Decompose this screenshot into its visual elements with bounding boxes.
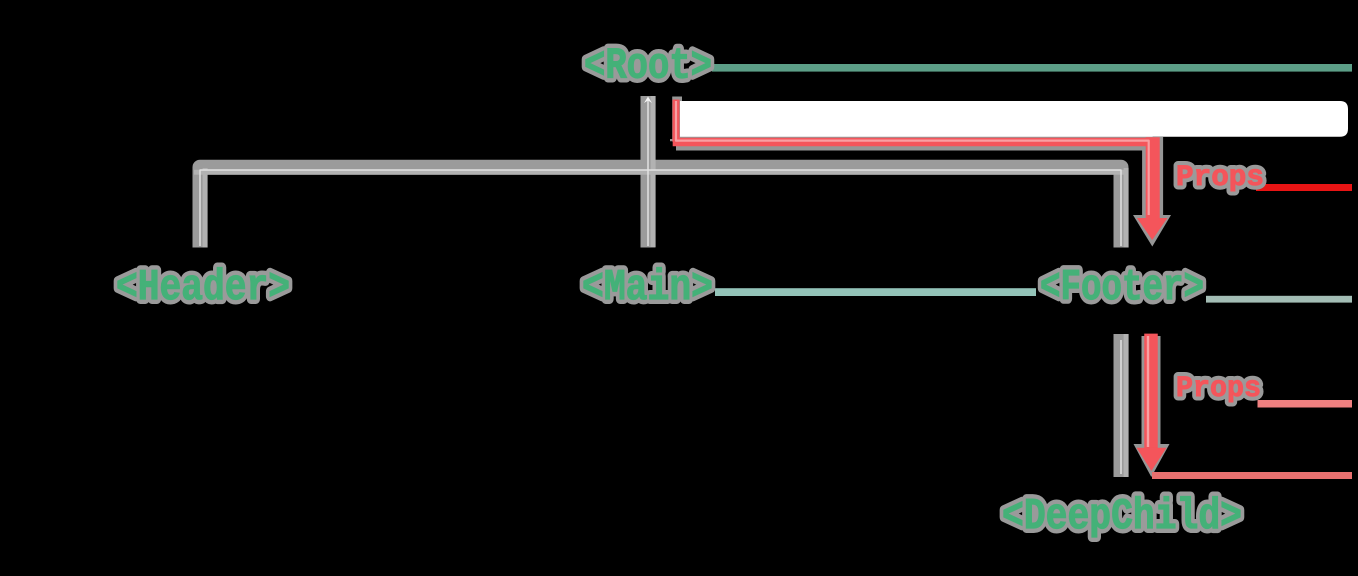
wire core: connector <box>200 170 1121 246</box>
red props path 2 <box>1144 334 1158 449</box>
rule F: salmon line at arrow 2 level <box>1152 472 1352 479</box>
arrow 1 gray halo <box>1133 215 1171 247</box>
arrowhead 1 <box>1137 218 1167 240</box>
svg-text:<DeepChild>: <DeepChild> <box>1002 492 1242 542</box>
wire: Root center vertical (gray band) <box>641 96 656 248</box>
arrowhead 2 <box>1137 448 1167 471</box>
red props path 1 <box>673 100 680 143</box>
green component labels <box>116 42 1242 543</box>
arrow 2 gray halo <box>1134 444 1170 477</box>
svg-text:<Main>: <Main> <box>582 263 713 313</box>
rule A: teal line right of Root <box>712 64 1352 72</box>
red props path 2: gray halo <box>1142 336 1161 450</box>
red props path 1 light core <box>676 101 1149 215</box>
rule E: salmon underline after Props 2 <box>1258 400 1353 408</box>
wire core: Root vertical <box>647 100 649 246</box>
wire: connector Header-Main-Footer (gray band) <box>200 167 1121 247</box>
tree edge gray bands <box>200 96 1121 477</box>
wire: Footer to DeepChild vertical (gray band) <box>1114 334 1129 477</box>
red props path 2 light core <box>1147 336 1149 447</box>
wire core: Footer-DeepChild vertical <box>1120 340 1122 474</box>
light bevel strips <box>194 96 1129 477</box>
red Props labels <box>1176 161 1264 406</box>
white core lines <box>200 100 1121 474</box>
svg-text:Props: Props <box>1176 372 1261 406</box>
rule B: teal line between Main and Footer <box>715 288 1036 296</box>
svg-text:<Footer>: <Footer> <box>1040 263 1204 313</box>
red props path 1: gray halo <box>670 97 682 142</box>
svg-text:<Root>: <Root> <box>584 42 712 92</box>
label halos (gray outline copies) <box>116 42 1242 543</box>
rule D: red underline after Props 1 <box>1256 184 1352 191</box>
svg-text:Props: Props <box>1176 161 1264 195</box>
svg-text:<Header>: <Header> <box>116 263 290 313</box>
rule C: teal line right of Footer <box>1206 296 1352 303</box>
white knockout box <box>680 101 1348 137</box>
white chevron at top of Root vertical <box>644 97 652 104</box>
